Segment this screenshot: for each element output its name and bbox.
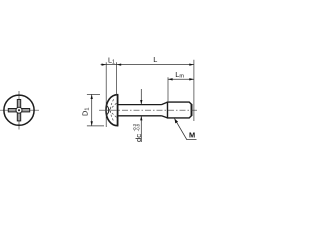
svg-text:L: L: [153, 55, 157, 64]
front view: recess center circle: [16, 107, 22, 113]
side view: hidden recess cone upper (dashed): [109, 103, 117, 110]
front view: phillips recess cross horizontal arm: [8, 109, 29, 112]
side view: thread end face (bold): [191, 104, 193, 116]
extension line screw tip (L right): [193, 60, 195, 121]
side view: axis center line (dash-dot): [99, 109, 197, 111]
front view: phillips recess cross vertical arm: [17, 100, 20, 121]
extension line thread start (Lm left): [167, 77, 169, 101]
label dc with tolerance (rotated): [132, 123, 143, 142]
front view: vertical center line: [18, 91, 20, 130]
arrow D1 bottom (pointing down): [91, 121, 93, 126]
side view: hidden recess arc (dashed): [110, 99, 113, 121]
dimension dc line upper segment: [140, 89, 142, 105]
side view: shank bottom line: [118, 115, 162, 117]
side view: shank top line: [118, 104, 162, 106]
dimension Lm line: [168, 78, 194, 80]
dimension dc line lower segment: [140, 116, 142, 142]
extension line head face (L1 right): [116, 62, 118, 95]
side view: recess edge-on bracket: [107, 106, 109, 115]
side view: hidden recess cone lower (dashed): [109, 110, 117, 117]
leader arrow at thread: [175, 119, 179, 124]
side view: cone transition to thread: [162, 102, 168, 118]
side view: pan head dome outline: [106, 95, 118, 126]
arrow at L1 right / L left (pointing left): [117, 63, 122, 65]
front view: recess center dot: [18, 109, 20, 111]
side view: thread start vertical line: [167, 102, 169, 118]
svg-text:-0.8: -0.8: [136, 123, 141, 131]
arrow dc upper (pointing down): [140, 100, 142, 105]
extension line head bottom (D1): [87, 125, 104, 127]
extension line head apex (L1 left): [105, 62, 107, 127]
extension line head top (D1): [87, 93, 100, 95]
arrow Lm right: [189, 78, 194, 80]
front view: horizontal center line: [0, 109, 39, 111]
side view: head bearing face line: [117, 95, 119, 126]
side view: thread section outline: [168, 102, 192, 118]
leader line for M: [175, 119, 197, 140]
arrow at L1 left (outside, pointing right): [102, 63, 107, 65]
front view: head outline circle: [4, 95, 34, 125]
dimension L1/L line: [101, 64, 194, 66]
arrow at L right (pointing right): [189, 63, 194, 65]
arrow dc lower (pointing up): [140, 116, 142, 121]
arrow Lm left: [168, 78, 173, 80]
arrow D1 top (pointing up): [91, 94, 93, 99]
svg-text:M: M: [189, 130, 195, 139]
svg-text:dc: dc: [134, 134, 143, 142]
dimension D1 line: [91, 94, 93, 126]
